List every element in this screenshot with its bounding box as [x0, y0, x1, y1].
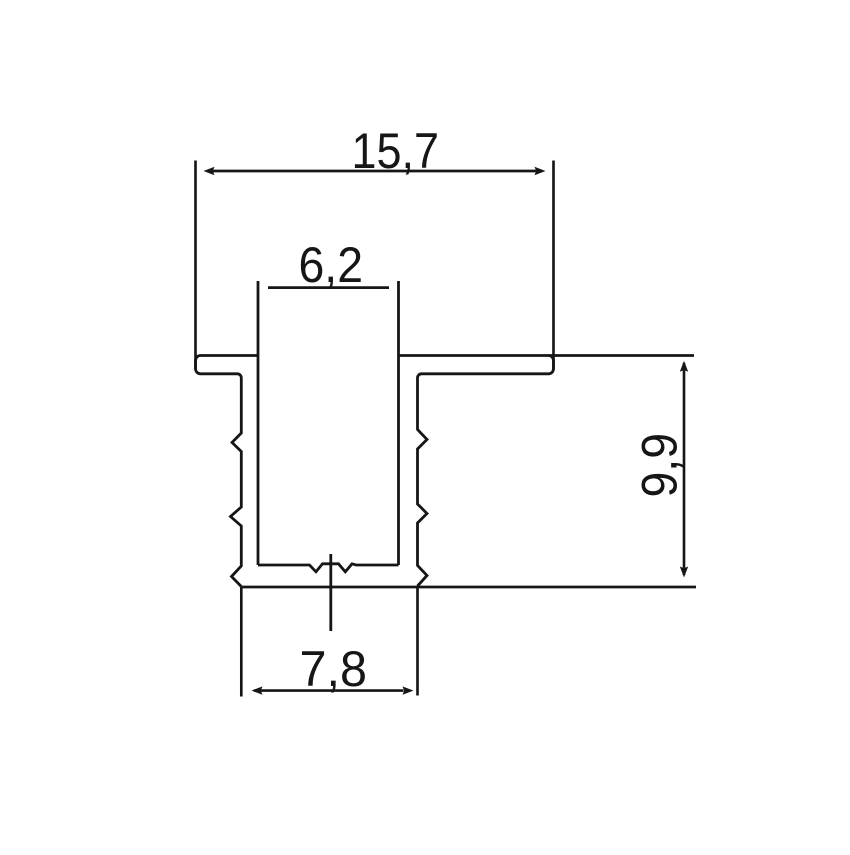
svg-text:9,9: 9,9	[630, 433, 687, 498]
svg-text:6,2: 6,2	[299, 236, 364, 293]
svg-text:7,8: 7,8	[300, 640, 368, 697]
svg-text:15,7: 15,7	[352, 122, 440, 179]
